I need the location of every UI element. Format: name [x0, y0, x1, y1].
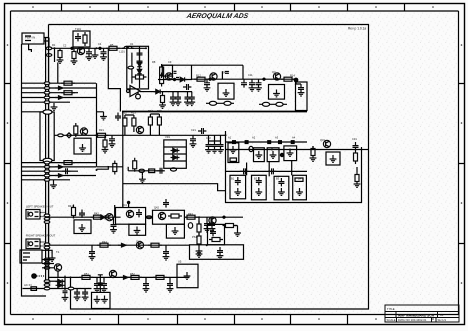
driver box L — [116, 208, 146, 225]
cap C501 — [143, 280, 150, 292]
wire y170 — [128, 170, 164, 172]
res R502 — [128, 275, 142, 279]
rung pads A — [44, 214, 50, 217]
transistor Q104 — [165, 73, 172, 80]
svg-text:PS1: PS1 — [192, 235, 197, 239]
svg-text:A1: A1 — [440, 313, 444, 317]
resistor R206 vertical — [133, 158, 137, 172]
inductor L101 — [122, 46, 134, 48]
res R501 — [79, 275, 93, 279]
cap C201 — [109, 135, 116, 147]
ground in R2 — [172, 227, 179, 234]
op-amp input circle — [127, 90, 130, 93]
stub mid — [97, 166, 109, 169]
cap-ground stack 3 — [217, 141, 224, 153]
E cap — [235, 177, 241, 185]
transistor Q102 — [210, 73, 217, 80]
cap above driver box — [163, 199, 169, 207]
dotted leads J202 — [41, 242, 46, 246]
ground in amp box 1 — [223, 89, 230, 96]
inner rail — [132, 46, 140, 88]
res in driver R — [168, 214, 182, 218]
output stage box — [190, 245, 244, 259]
row2 wire — [226, 170, 308, 172]
gnd below rail g2 — [50, 181, 57, 188]
diode D103 — [154, 89, 163, 93]
top tie wire — [125, 115, 134, 135]
module box D — [284, 146, 297, 161]
grounds row cap 2 — [175, 94, 182, 106]
svg-text:U1: U1 — [130, 42, 134, 46]
opamp out circle — [136, 94, 141, 99]
svg-text:Q42: Q42 — [154, 206, 159, 210]
resistor R401 — [72, 205, 76, 219]
svg-text:LEFT SPEAKER OUT: LEFT SPEAKER OUT — [26, 205, 54, 209]
tiny ground mid — [92, 51, 99, 58]
trimmer leads T1 T2 — [206, 102, 234, 104]
ground in amp box 2 — [273, 90, 280, 97]
blob before D — [280, 153, 283, 156]
cluster cap 1 — [94, 280, 101, 292]
wire A tail — [184, 216, 243, 218]
svg-text:Q41: Q41 — [122, 203, 127, 207]
ground in box — [79, 224, 86, 231]
svg-text:A4: A4 — [292, 136, 296, 140]
svg-text:B4: B4 — [298, 177, 302, 181]
ac connector pins — [23, 253, 30, 260]
end dot — [223, 216, 225, 218]
opamp out stub — [137, 92, 139, 95]
svg-text:U5: U5 — [178, 260, 182, 264]
resistor R208 vertical — [113, 161, 117, 175]
top rail wire — [192, 78, 296, 80]
junction rect 5 — [291, 141, 294, 144]
pad on mid wire — [58, 134, 64, 137]
arrow C — [120, 276, 128, 280]
transistor Q201 — [80, 128, 87, 135]
res R405 — [148, 243, 162, 247]
svg-text:R24: R24 — [148, 109, 153, 113]
amp box 2 — [269, 85, 285, 100]
sub box R2 — [166, 224, 184, 238]
stub gnd top mid — [97, 111, 104, 114]
svg-text:A1: A1 — [228, 136, 232, 140]
svg-text:AC IN: AC IN — [24, 283, 31, 287]
res R301 — [310, 146, 317, 161]
E ground — [234, 188, 241, 195]
resistor R200 — [74, 123, 78, 137]
ground right — [234, 229, 241, 236]
svg-text:VR1: VR1 — [165, 135, 171, 139]
svg-text:R41: R41 — [68, 204, 73, 208]
long feed wire jog — [123, 184, 226, 191]
cap box right — [296, 82, 308, 111]
mid wire — [54, 134, 225, 136]
cap on riser — [98, 275, 103, 285]
svg-text:C4: C4 — [98, 42, 102, 46]
riser into driver box L — [128, 203, 130, 208]
wire C y=277 — [49, 276, 190, 278]
ground under pad — [139, 175, 146, 182]
resistor R101 in filter box — [83, 32, 87, 46]
module box B — [254, 148, 265, 162]
stub right gnd — [235, 226, 238, 230]
rung pads g1 — [44, 82, 50, 85]
transistor Q202 — [136, 126, 143, 133]
svg-text:B3: B3 — [276, 177, 280, 181]
dotted line from circle — [37, 275, 46, 277]
stub — [91, 245, 93, 248]
cap C109 — [249, 79, 256, 91]
svg-text:C21: C21 — [191, 128, 196, 132]
svg-text:Q3: Q3 — [272, 70, 276, 74]
trimmer oval T4 — [276, 102, 283, 106]
resistor R102 to ground — [57, 48, 64, 63]
vertical res chain v1 — [197, 221, 201, 235]
gnd in C — [270, 151, 277, 158]
vertical res chain v2 — [197, 233, 201, 247]
drop rail right — [57, 63, 59, 84]
diode pair 1 — [56, 279, 65, 283]
res in A — [230, 158, 237, 161]
row1 top wire — [226, 141, 308, 143]
wire opamp out — [140, 91, 155, 93]
trimmer leads T3 T4 — [259, 103, 287, 105]
riser BC — [268, 162, 270, 177]
wire between boxes — [146, 216, 153, 218]
stub — [145, 277, 147, 280]
oval pad left — [188, 223, 192, 229]
gnd top mid — [100, 113, 107, 120]
module box A — [228, 143, 239, 163]
oval connector pad J — [43, 110, 52, 114]
transistor in output box — [209, 217, 216, 224]
stub tiny ground — [94, 48, 96, 51]
svg-text:R52: R52 — [130, 272, 135, 276]
node dot — [263, 78, 265, 80]
cap C106 — [183, 84, 191, 90]
cap C104 — [137, 50, 143, 58]
psu box w ground — [177, 264, 198, 288]
G ground — [278, 188, 285, 195]
grounds row stubs — [173, 92, 192, 94]
resistor R201b to ground — [102, 138, 109, 153]
cap C403 — [204, 220, 211, 232]
diode D102 — [137, 67, 141, 76]
svg-text:A2: A2 — [252, 136, 256, 140]
resistor R403 — [184, 215, 198, 219]
transistor Q401 — [106, 214, 113, 221]
small res g1b — [61, 91, 75, 95]
resistor R103 to ground — [71, 49, 78, 64]
resistor R106 to ground — [159, 93, 166, 108]
junction rect 4 — [279, 141, 282, 144]
riser to wire C — [58, 271, 71, 283]
cap in driver L — [136, 209, 142, 217]
transistor Q501 — [109, 270, 116, 277]
cap above rail — [225, 72, 229, 74]
wire top feed — [49, 38, 146, 49]
H res — [295, 178, 303, 181]
designator smudge labels — [46, 27, 357, 285]
wire stub R102 — [59, 47, 61, 49]
resistor R207 — [149, 169, 155, 173]
oval pad — [139, 169, 145, 172]
pad 2 — [46, 54, 52, 57]
big box left edge — [48, 25, 50, 286]
res in inner box — [209, 238, 223, 242]
resistor R107 — [160, 64, 164, 78]
filter box above wire — [73, 31, 90, 47]
svg-text:R23: R23 — [131, 111, 136, 115]
resistor R104 — [106, 46, 120, 50]
row1 wire — [226, 149, 362, 151]
pads between — [146, 216, 152, 219]
transistor Q101 — [77, 47, 84, 54]
resistor R203 — [132, 115, 136, 129]
svg-text:C11: C11 — [248, 73, 253, 77]
trimmer oval T1 — [209, 101, 216, 105]
cap C202 — [190, 135, 197, 147]
oval bead — [68, 287, 74, 290]
wire to big box edge — [362, 149, 369, 151]
oval before B — [249, 146, 253, 151]
trimmer oval T2 — [224, 101, 231, 105]
rung pads C — [44, 258, 50, 261]
grounds row cap 3 — [184, 94, 191, 106]
top section box bottom edge — [122, 111, 307, 113]
wire to transformer top — [22, 111, 44, 113]
small ground ac — [49, 254, 56, 261]
dark pilot circle — [32, 274, 36, 278]
dotted leads J201 — [41, 213, 46, 217]
cap right C301 — [353, 142, 359, 150]
resistor R204 — [148, 114, 152, 128]
connector J201 — [26, 210, 40, 220]
wire to gnd stub — [42, 250, 52, 254]
F cap — [256, 177, 262, 185]
small res g1 — [61, 81, 75, 85]
svg-text:C2: C2 — [63, 44, 67, 48]
svg-text:C31: C31 — [352, 137, 357, 141]
pad on wire — [46, 47, 52, 50]
zener rows — [164, 147, 187, 161]
svg-text:Q2: Q2 — [222, 70, 226, 74]
resistor R201 — [95, 133, 109, 137]
node blob — [294, 78, 298, 82]
cap C404 — [209, 220, 216, 232]
stub — [97, 277, 104, 280]
transistor in driver box L — [126, 210, 133, 217]
svg-text:SCALE: SCALE — [387, 318, 396, 322]
feed riser — [127, 167, 129, 171]
wire to resistor — [163, 91, 193, 93]
connector P101 box — [22, 33, 44, 44]
svg-text:SH 1/1: SH 1/1 — [438, 318, 447, 322]
drop wire to ladder — [54, 48, 56, 62]
chain top — [198, 217, 200, 224]
resistor R105 — [133, 75, 147, 79]
short wire y281 — [49, 280, 65, 282]
svg-text:C22: C22 — [206, 136, 211, 140]
chain stub — [356, 167, 358, 172]
svg-text:DWG NO 100-4462-01: DWG NO 100-4462-01 — [398, 318, 427, 322]
grounds row cap 4 — [188, 94, 195, 106]
cap C406 — [163, 248, 170, 260]
riser AB — [246, 163, 248, 176]
junction rect 1 — [233, 141, 236, 144]
diode D101 — [137, 60, 141, 69]
gnd box bottom — [92, 292, 111, 308]
res R503 — [153, 275, 167, 279]
svg-text:R8: R8 — [152, 60, 156, 64]
mid vertical rail — [96, 83, 98, 167]
connector J202 — [26, 239, 40, 249]
cap C103 — [100, 48, 107, 60]
cap C102 — [86, 48, 93, 60]
cap in output box — [217, 247, 224, 259]
cap C111 in box — [298, 84, 305, 96]
junction rect 3 — [268, 141, 271, 144]
dot riser — [128, 201, 130, 203]
gnd at 65 — [62, 294, 69, 301]
svg-text:R25: R25 — [157, 109, 162, 113]
stack feed — [209, 135, 221, 141]
arrows g2 — [55, 165, 63, 169]
res right R302 — [354, 150, 358, 164]
cap g2 — [62, 168, 70, 174]
stub — [207, 217, 212, 220]
cap marks 65 — [63, 291, 68, 293]
resistor R404 — [97, 243, 111, 247]
svg-text:B1: B1 — [231, 177, 235, 181]
svg-text:L101: L101 — [119, 50, 125, 54]
transformer T101 — [54, 264, 61, 271]
stub2 — [169, 277, 171, 280]
svg-text:A3: A3 — [275, 136, 279, 140]
arrows g1 — [55, 86, 63, 90]
cluster cap 2 — [101, 280, 108, 292]
cap above G — [268, 168, 276, 174]
rung pads B — [44, 243, 50, 246]
vertical pin rail pair — [46, 38, 49, 286]
transistor Q301 — [323, 140, 330, 147]
svg-text:C9: C9 — [168, 60, 172, 64]
cap C203 — [198, 128, 206, 134]
node dot B — [99, 47, 101, 49]
cap C105 — [137, 58, 143, 66]
resistor R109 — [194, 77, 208, 81]
driver box R — [153, 210, 185, 224]
svg-text:R44: R44 — [102, 240, 107, 244]
module enclosure — [226, 131, 362, 203]
tie wire 2 — [150, 114, 159, 135]
stub gnd g2 — [53, 180, 55, 181]
svg-text:R5: R5 — [110, 43, 114, 47]
amp box 1 — [218, 83, 234, 99]
rung pads g2 — [44, 161, 50, 164]
diode D401 — [99, 215, 108, 219]
sub box L2 — [129, 224, 146, 235]
stub — [312, 146, 314, 150]
ladder rung bottom — [42, 260, 54, 268]
ac connector box — [20, 250, 42, 263]
svg-text:R53: R53 — [46, 281, 51, 285]
transistor Q402 — [136, 242, 143, 249]
cap C402 — [110, 221, 117, 233]
title block — [385, 305, 459, 322]
trimmer oval T3 — [262, 102, 269, 106]
cap-gnd d2 — [82, 289, 89, 301]
cap C502 — [167, 280, 174, 292]
left tall connector-column line — [22, 44, 47, 296]
tiny ground top — [51, 103, 58, 110]
wire PWR drop jog — [29, 44, 32, 52]
stub gnd — [141, 172, 143, 175]
cap C108 — [241, 79, 247, 87]
riser CD — [291, 161, 293, 176]
connector P101 pins — [25, 36, 49, 41]
oval connector pad J2 — [43, 158, 52, 162]
transistor in driver box R — [158, 212, 165, 219]
cap-ground stack 2 — [211, 141, 218, 153]
oval under zener box — [171, 168, 177, 171]
diamond node — [67, 133, 72, 138]
wire y79.5 — [158, 79, 192, 81]
riser — [114, 205, 115, 221]
F ground — [255, 188, 262, 195]
ground in psu box — [184, 272, 191, 279]
small box w ground — [326, 152, 340, 165]
inner driver box — [208, 224, 225, 244]
riser right — [99, 275, 101, 293]
module box E — [230, 175, 246, 199]
zener D201 — [171, 148, 180, 152]
wire B — [49, 244, 190, 246]
ground in small box — [330, 155, 337, 162]
svg-text:R51: R51 — [84, 272, 89, 276]
resistor R108 — [160, 73, 164, 87]
cap in inner box — [210, 228, 216, 236]
resistor R202 — [123, 115, 127, 129]
svg-text:R12: R12 — [196, 74, 201, 78]
arrow — [118, 243, 126, 247]
riser q102 — [221, 71, 223, 79]
node dot q104 — [173, 78, 175, 80]
rung pads D — [44, 280, 50, 283]
node dot — [209, 78, 211, 80]
preamp box — [74, 138, 91, 154]
pad P — [128, 66, 134, 69]
diode D104 — [178, 77, 187, 81]
res box on wire D — [31, 287, 37, 291]
resistor R402 — [91, 215, 105, 219]
junction rect 2 — [245, 141, 248, 144]
svg-text:R1: R1 — [52, 43, 56, 47]
cap C101 in filter box — [75, 33, 81, 41]
ladder rung group 2 — [22, 163, 97, 180]
cap above E — [240, 168, 248, 174]
stub into box — [296, 79, 301, 84]
gnd in D — [287, 149, 294, 156]
small res g2 — [61, 161, 75, 165]
svg-text:R43: R43 — [188, 212, 193, 216]
gnd in A — [230, 146, 237, 153]
stub — [73, 217, 75, 218]
stub cap — [165, 207, 167, 208]
svg-text:Q31: Q31 — [320, 138, 325, 142]
regulator box U101 — [127, 46, 149, 89]
